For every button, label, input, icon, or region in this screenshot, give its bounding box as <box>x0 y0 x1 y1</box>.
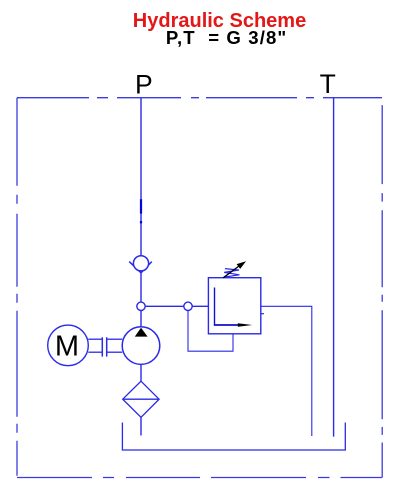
wire P line dark dot <box>140 221 142 223</box>
border frame right edge (chain line) <box>381 98 383 478</box>
wire filter to tank <box>140 417 142 435</box>
wire P line dark overdraw segment <box>140 199 142 213</box>
pump P1 flow triangle <box>135 328 148 337</box>
relief valve RV1 internal flow arrow <box>214 288 216 326</box>
wire T line vertical <box>333 98 335 437</box>
relief valve RV1 adjustment arrow <box>223 265 240 278</box>
border frame bottom edge (chain line) <box>17 477 382 479</box>
relief valve RV1 body <box>208 278 260 334</box>
wire P line vertical <box>140 98 142 327</box>
filter F1 <box>123 381 159 417</box>
wire branch node1-node2 <box>141 305 208 307</box>
svg-text:T: T <box>320 69 336 99</box>
relief valve RV1 spring <box>224 269 239 277</box>
check valve V1 ball <box>133 256 148 271</box>
wire pump to filter <box>140 364 142 381</box>
tank <box>122 423 345 451</box>
filter F1 element line <box>123 398 159 400</box>
node junction 2 <box>184 302 192 310</box>
motor M1 <box>48 325 89 366</box>
wire pilot line <box>188 311 233 352</box>
relief valve RV1 right edge tick <box>261 313 264 315</box>
node junction 1 <box>137 302 145 310</box>
border frame top edge (chain line) <box>17 97 382 99</box>
coupling bars <box>102 337 106 356</box>
shaft lines motor-coupling <box>88 339 122 352</box>
check valve V1 seat <box>129 262 152 273</box>
svg-text:M: M <box>55 331 79 363</box>
border frame left edge (chain line) <box>16 98 18 478</box>
pump P1 <box>122 327 160 365</box>
wire relief output <box>261 306 312 436</box>
svg-text:P: P <box>135 70 153 100</box>
svg-text:P,T = G 3/8": P,T = G 3/8" <box>166 27 287 48</box>
